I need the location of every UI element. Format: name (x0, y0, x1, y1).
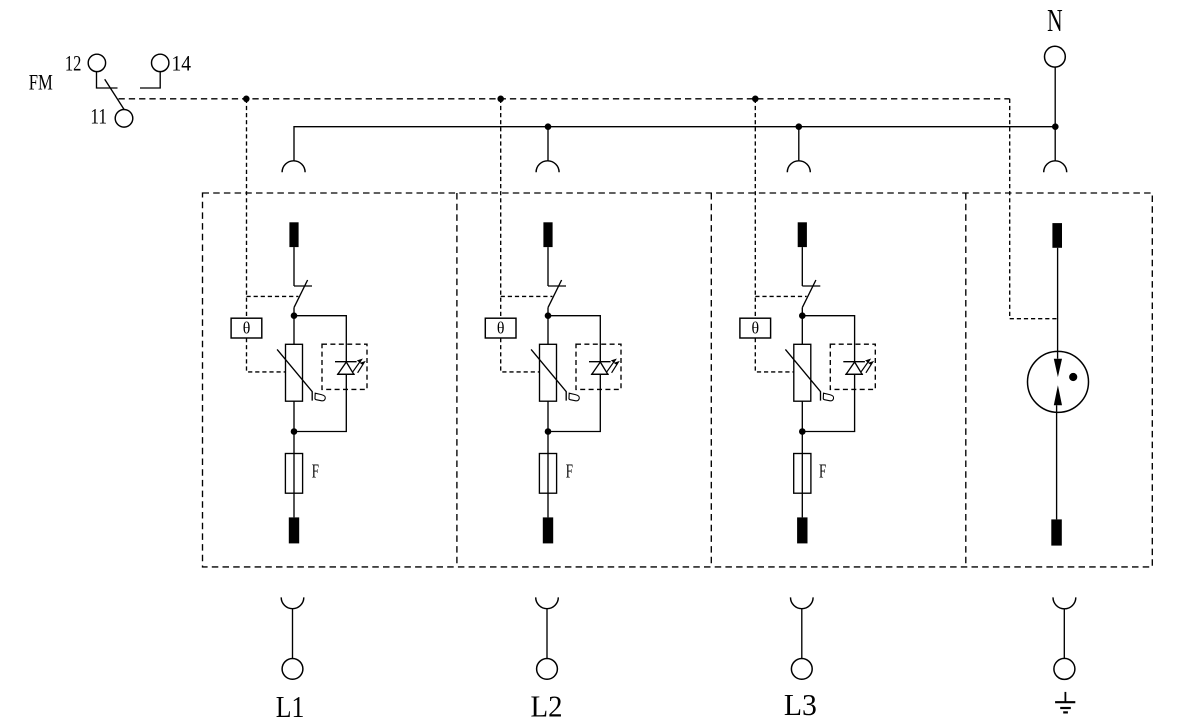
svg-text:L3: L3 (784, 687, 817, 720)
svg-text:θ: θ (752, 319, 760, 338)
varistor module L2 LED light arrow 1 (607, 360, 616, 372)
junction dot FM bus / L3 drop (752, 96, 759, 103)
varistor module L2 varistor body (540, 344, 557, 401)
varistor module L3 LED indicator dashed box (830, 344, 875, 389)
varistor module L2 wire blade to node (547, 308, 549, 316)
varistor module L1 node dot varistor bottom (291, 428, 298, 435)
varistor module L1 thermal sensor box (231, 318, 262, 338)
varistor module L2 varistor diagonal with break tail (531, 349, 566, 400)
varistor module L3 wire node to varistor (801, 316, 803, 345)
earth ground symbol (1064, 692, 1066, 702)
varistor module L2 fuse body (539, 454, 556, 494)
varistor module L1 LED triangle (338, 362, 354, 374)
svg-text:11: 11 (90, 104, 107, 129)
varistor module L2 wire socket to line terminal (546, 609, 548, 659)
varistor module L2 node dot varistor top (545, 312, 552, 319)
varistor module L3 linkage sensor to varistor (755, 338, 794, 372)
varistor module L3 LED cathode bar (843, 361, 865, 363)
varistor module L2 thermal sensor box (485, 318, 516, 338)
varistor module L1 varistor diagonal with break tail (277, 349, 312, 400)
varistor module L1 wire node to varistor (293, 316, 295, 345)
varistor module L2 linkage branch to blade (501, 295, 553, 297)
varistor module L2 indicator branch wire (548, 316, 600, 432)
module divider L2/L3 (710, 193, 712, 567)
varistor module L2 LED cathode bar (589, 361, 611, 363)
varistor module L2 linkage sensor to varistor (501, 338, 540, 372)
varistor module L3 terminal pin bottom (797, 517, 807, 543)
varistor module L3 terminal pin top (798, 222, 807, 247)
svg-text:12: 12 (65, 50, 82, 75)
svg-text:FM: FM (29, 70, 53, 95)
N module terminal pin bottom (1051, 519, 1062, 545)
svg-text:L1: L1 (276, 689, 305, 720)
varistor module L2 wire node to terminal pin bottom (547, 432, 549, 518)
FM contact terminal 12 circle (88, 54, 105, 71)
FM switch blade 12-11 (105, 79, 125, 109)
varistor module L3 plug-in socket arc bottom (791, 597, 814, 608)
spark gap electrode bottom (1054, 385, 1062, 405)
junction dot N bus / L2 module (545, 123, 552, 130)
plug-in socket arc above L1 module (282, 161, 305, 173)
svg-text:θ: θ (243, 319, 251, 338)
plug-in socket arc above N module (1044, 161, 1067, 173)
varistor module L1 fuse body (285, 454, 302, 494)
varistor module L3 wire varistor to node (801, 401, 803, 431)
junction dot N bus / L3 module (796, 123, 803, 130)
varistor module L2 thermal disconnector contact bar (548, 285, 566, 287)
varistor module L2 LED indicator dashed box (576, 344, 621, 389)
varistor module L3 wire node to terminal pin bottom (801, 432, 803, 518)
varistor module L3 fuse body (794, 454, 811, 494)
wire from terminal 12 (97, 72, 118, 88)
varistor module L3 line terminal circle (791, 659, 812, 680)
FM contact terminal 14 circle (152, 54, 169, 71)
varistor module L2 thermal disconnector blade (548, 280, 562, 308)
varistor module L3 node dot varistor bottom (799, 428, 806, 435)
varistor module L3 thermal disconnector contact bar (802, 285, 820, 287)
varistor module L3 varistor diagonal with break tail (785, 349, 820, 400)
junction dot FM bus / L1 drop (243, 96, 250, 103)
varistor module L1 thermal disconnector blade (294, 280, 308, 308)
gas-filled indicator dot (1069, 373, 1077, 381)
varistor module L3 LED light arrow 2 (866, 362, 873, 373)
varistor module L1 wire blade to node (293, 308, 295, 316)
plug-in socket arc above L3 module (787, 161, 810, 173)
wire N bus to L3 plug-in socket (798, 127, 800, 161)
FM contact terminal 11 circle (115, 110, 133, 128)
plug-in socket arc above L2 module (536, 161, 559, 173)
varistor module L1 LED cathode bar (335, 361, 357, 363)
varistor module L2 wire pin to thermal disconnector (547, 247, 549, 286)
varistor module L3 linkage branch to blade (755, 295, 806, 297)
wire socket to PE terminal (1063, 609, 1065, 659)
varistor module L3 thermal disconnector blade (802, 280, 816, 308)
varistor module L1 linkage branch to blade (247, 295, 299, 297)
varistor module L3 indicator branch wire (802, 316, 854, 432)
varistor module L1 wire node to terminal pin bottom (293, 432, 295, 518)
varistor module L3 LED light arrow 1 (861, 360, 870, 372)
wire N terminal down to plug-in socket (1054, 67, 1056, 161)
varistor module L1 wire socket to line terminal (292, 609, 294, 659)
varistor module L2 thermal linkage drop from FM bus (500, 99, 502, 318)
wire spark gap to terminal pin bottom (1056, 405, 1058, 519)
varistor module L2 node dot varistor bottom (545, 428, 552, 435)
varistor module L3 wire socket to line terminal (801, 609, 803, 659)
svg-text:N: N (1047, 3, 1063, 38)
svg-text:F: F (566, 460, 573, 482)
varistor module L2 LED anode base line (591, 373, 609, 375)
varistor module L2 LED triangle (592, 362, 608, 374)
wire from terminal 14 (140, 72, 160, 88)
varistor module L1 plug-in socket arc bottom (281, 597, 304, 608)
PE terminal circle (1054, 658, 1075, 679)
varistor module L3 wire pin to thermal disconnector (801, 247, 803, 286)
varistor module L1 indicator branch wire (294, 316, 346, 432)
varistor module L3 thermal linkage drop from FM bus (754, 99, 756, 318)
varistor module L3 LED anode base line (845, 373, 863, 375)
varistor module L3 node dot varistor top (799, 312, 806, 319)
varistor module L1 terminal pin bottom (289, 517, 299, 543)
varistor module L2 wire varistor to node (547, 401, 549, 431)
junction dot N bus / N module (1052, 123, 1059, 130)
wire pin to spark gap (1057, 248, 1059, 359)
svg-text:L2: L2 (531, 688, 563, 720)
varistor module L2 line terminal circle (537, 659, 558, 680)
solid N bus (294, 127, 1055, 161)
varistor module L1 node dot varistor top (291, 312, 298, 319)
varistor module L2 LED light arrow 2 (612, 362, 619, 373)
varistor module L3 thermal sensor box (740, 318, 771, 338)
monitoring linkage drop N module (1009, 99, 1011, 319)
varistor module L1 line terminal circle (282, 659, 303, 680)
varistor module L3 varistor body (794, 344, 811, 401)
N terminal circle (1045, 46, 1066, 67)
N module terminal pin top (1052, 223, 1062, 248)
svg-text:θ: θ (497, 319, 505, 338)
monitoring linkage to spark gap (1010, 318, 1058, 320)
varistor module L1 wire varistor to node (293, 401, 295, 431)
FM monitoring dashed bus (119, 98, 1010, 100)
gas discharge tube circle (1028, 351, 1089, 412)
svg-text:F: F (312, 460, 319, 482)
SPD enclosure dashed box (203, 193, 1153, 567)
varistor module L1 thermal linkage drop from FM bus (246, 99, 248, 318)
module divider L1/L2 (456, 193, 458, 567)
junction dot FM bus / L2 drop (497, 96, 504, 103)
varistor module L1 linkage sensor to varistor (247, 338, 286, 372)
varistor module L1 LED light arrow 1 (353, 360, 362, 372)
varistor module L2 disconnect indicator flag (569, 393, 579, 401)
varistor module L2 plug-in socket arc bottom (536, 597, 559, 608)
svg-text:F: F (819, 460, 826, 482)
varistor module L3 LED triangle (846, 362, 862, 374)
varistor module L2 terminal pin top (543, 222, 552, 247)
varistor module L2 terminal pin bottom (543, 517, 553, 543)
plug-in socket arc bottom PE (1053, 597, 1076, 608)
varistor module L1 LED anode base line (337, 373, 355, 375)
varistor module L1 LED indicator dashed box (322, 344, 367, 389)
varistor module L1 disconnect indicator flag (315, 393, 325, 401)
varistor module L1 varistor body (286, 344, 303, 401)
svg-text:14: 14 (172, 50, 192, 75)
varistor module L3 disconnect indicator flag (823, 393, 833, 401)
wire N bus to L2 plug-in socket (547, 127, 549, 161)
spark gap electrode top (1054, 359, 1062, 377)
varistor module L1 thermal disconnector contact bar (294, 285, 312, 287)
varistor module L1 LED light arrow 2 (358, 362, 365, 373)
module divider L3/N (965, 193, 967, 567)
varistor module L3 wire blade to node (801, 308, 803, 316)
varistor module L2 wire node to varistor (547, 316, 549, 345)
varistor module L1 terminal pin top (289, 222, 298, 247)
varistor module L1 wire pin to thermal disconnector (293, 247, 295, 286)
